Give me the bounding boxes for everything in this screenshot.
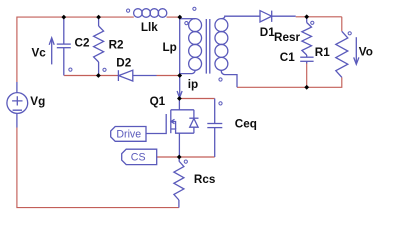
svg-text:ip: ip: [188, 78, 198, 91]
svg-text:D1: D1: [260, 26, 275, 39]
svg-text:Llk: Llk: [141, 21, 158, 34]
svg-text:Resr: Resr: [274, 31, 300, 44]
svg-text:Lp: Lp: [163, 41, 177, 54]
svg-text:Vc: Vc: [32, 46, 47, 59]
svg-text:C1: C1: [280, 51, 295, 64]
svg-text:Ceq: Ceq: [235, 118, 257, 131]
svg-text:D2: D2: [116, 56, 131, 69]
svg-text:Vg: Vg: [30, 95, 45, 108]
svg-text:R1: R1: [315, 46, 330, 59]
svg-text:CS: CS: [131, 152, 146, 164]
svg-text:Drive: Drive: [116, 129, 141, 141]
svg-text:Vo: Vo: [359, 45, 373, 58]
svg-text:C2: C2: [75, 37, 90, 50]
svg-text:R2: R2: [109, 39, 124, 52]
svg-text:Q1: Q1: [150, 95, 166, 108]
svg-text:Rcs: Rcs: [194, 173, 216, 186]
